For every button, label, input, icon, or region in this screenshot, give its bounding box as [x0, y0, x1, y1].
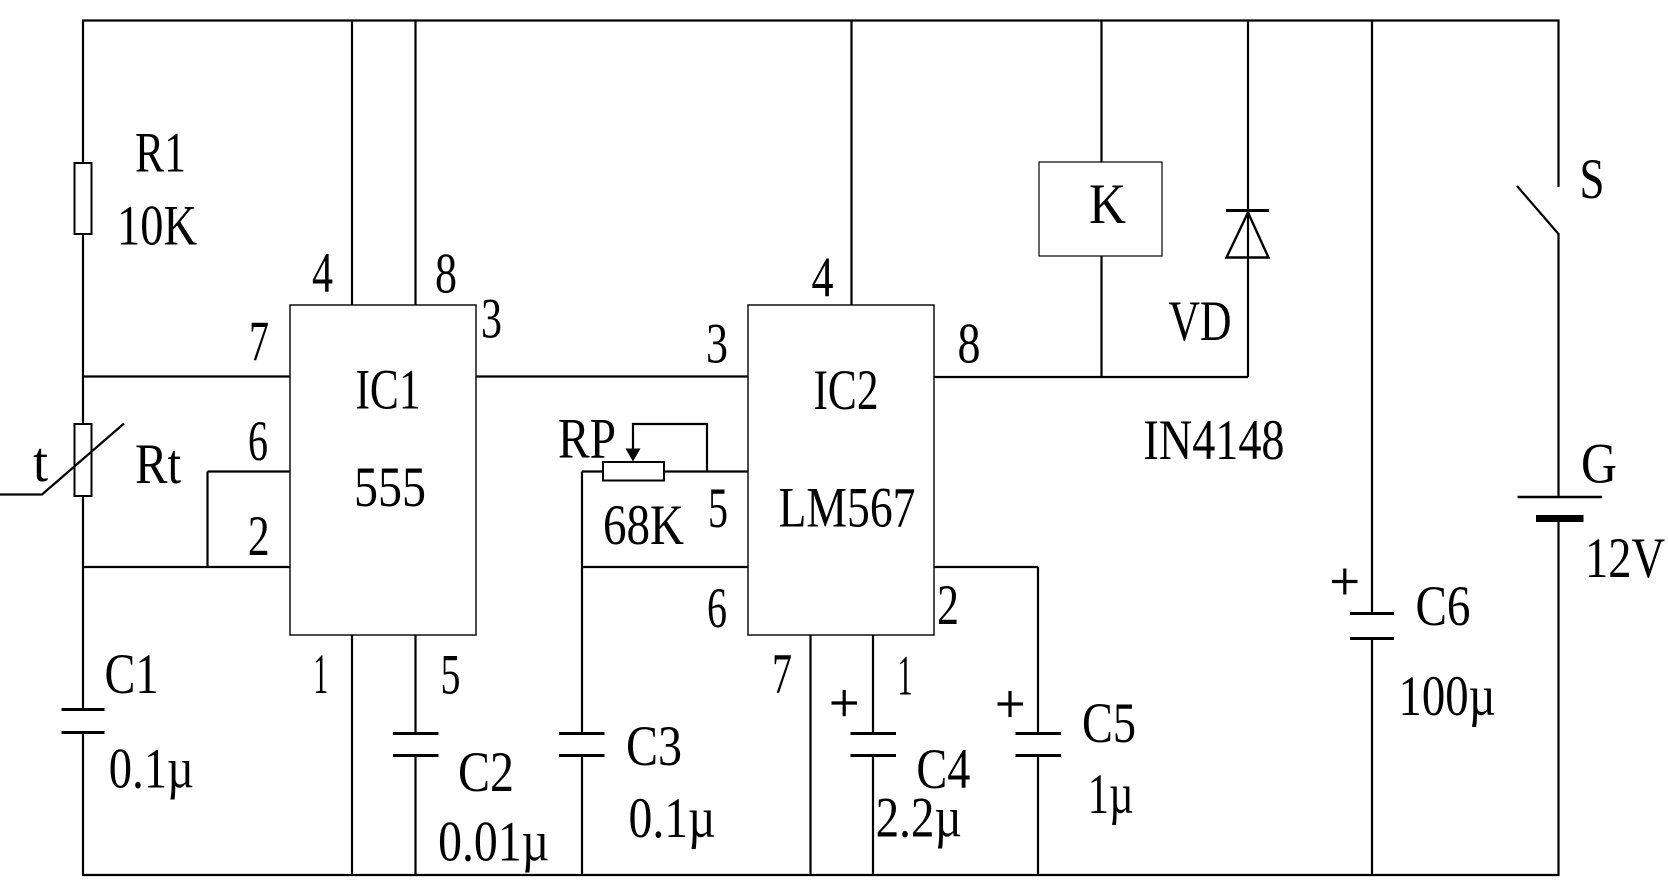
svg-text:555: 555 [354, 456, 426, 519]
relay K box [1039, 162, 1162, 256]
wire left rail above R1 [82, 21, 84, 165]
wire IC1 pin 8 to top bus [414, 21, 416, 306]
svg-text:IC2: IC2 [814, 359, 879, 422]
svg-text:10K: 10K [117, 195, 197, 258]
plus sign of C4 [832, 690, 858, 716]
svg-text:1: 1 [313, 643, 328, 706]
svg-text:1: 1 [898, 645, 913, 708]
svg-text:7: 7 [249, 310, 269, 373]
wire RP right lead to IC2 pin 5 [663, 470, 748, 472]
wire bottom ground bus [82, 874, 1560, 876]
svg-text:0.1µ: 0.1µ [629, 787, 716, 850]
svg-text:VD: VD [1169, 290, 1232, 353]
svg-text:S: S [1580, 148, 1605, 211]
svg-text:t: t [33, 431, 48, 494]
wire left rail C1 to bottom bus [82, 734, 84, 876]
plus sign of C6 [1332, 569, 1358, 595]
svg-text:3: 3 [706, 313, 728, 376]
wire IC2 pin 6 row [582, 566, 748, 568]
svg-text:4: 4 [812, 247, 834, 310]
svg-text:2: 2 [937, 574, 959, 637]
svg-text:K: K [1089, 173, 1126, 236]
IC2 LM567 box [748, 305, 934, 635]
battery G short thick plate [1536, 515, 1584, 522]
wire right rail above switch [1557, 21, 1559, 188]
wire IC2 pin 1 to C4 [872, 635, 874, 732]
battery G long plate [1518, 496, 1603, 499]
svg-text:LM567: LM567 [779, 477, 916, 540]
thermistor Rt diagonal stroke [0, 424, 124, 495]
wire C6 to bottom bus [1371, 640, 1373, 875]
wire IC1 pin 2 row [83, 566, 290, 568]
wire relay K to top bus [1100, 21, 1102, 163]
plus sign of C5 [998, 691, 1024, 717]
capacitor C4 [851, 734, 897, 756]
wire C3 to bottom bus [581, 757, 583, 875]
wire RP left lead [582, 470, 604, 472]
wire diode VD branch, top bus to pin 8 row [1247, 21, 1249, 378]
svg-text:C6: C6 [1416, 575, 1471, 638]
resistor R1 [75, 163, 92, 234]
wire RP wiper jog [633, 424, 707, 472]
svg-text:Rt: Rt [135, 433, 181, 496]
wire IC1 pin 7 row [83, 375, 290, 377]
svg-text:C1: C1 [105, 643, 159, 706]
svg-text:5: 5 [708, 477, 728, 540]
wire IC2 pin 2 row [934, 566, 1038, 568]
wire pin 2 down to C5 [1037, 567, 1039, 732]
diode VD cathode bar [1226, 209, 1269, 212]
svg-text:5: 5 [441, 644, 461, 707]
wire IC1 pin 1 to bottom bus [351, 635, 353, 875]
svg-text:68K: 68K [603, 494, 684, 557]
capacitor C2 [393, 734, 439, 756]
svg-text:0.1µ: 0.1µ [109, 738, 194, 801]
wire IC2 pin 8 to relay and diode [934, 376, 1248, 378]
switch S blade [1517, 186, 1559, 234]
wire IC1 pin 3 to IC2 pin 3 [476, 375, 748, 377]
wire relay K to pin 8 row [1100, 256, 1102, 377]
wire left rail Rt to C1 [82, 495, 84, 709]
svg-text:8: 8 [958, 313, 981, 376]
svg-text:G: G [1581, 433, 1617, 496]
wire jog joining pin 6 to pin 2 [206, 472, 208, 568]
wire C2 to bottom bus [414, 757, 416, 875]
svg-text:R1: R1 [135, 122, 186, 185]
wire C6 to top bus [1371, 21, 1373, 613]
svg-text:C5: C5 [1082, 692, 1136, 755]
svg-text:RP: RP [558, 408, 616, 471]
wire IC2 pin 4 to top bus [850, 21, 852, 306]
potentiometer RP wiper arrow [626, 449, 641, 462]
wire battery to bottom bus [1557, 520, 1559, 876]
IC1 555 box [290, 305, 476, 635]
svg-text:8: 8 [435, 243, 457, 306]
svg-text:C3: C3 [626, 715, 682, 778]
wire IC1 pin 5 to C2 [414, 635, 416, 732]
svg-text:0.01µ: 0.01µ [438, 811, 549, 874]
wire IC1 pin 4 to top bus [351, 21, 353, 306]
wire IC2 pin 7 to bottom bus [809, 635, 811, 875]
svg-text:100µ: 100µ [1399, 665, 1496, 728]
svg-text:12V: 12V [1585, 527, 1665, 590]
wire IC1 pin 6 row [208, 470, 291, 472]
capacitor C5 [1016, 734, 1062, 756]
diode VD triangle [1227, 213, 1269, 258]
capacitor C6 [1350, 614, 1394, 639]
wire RP left end down to C3 [581, 472, 583, 733]
wire switch to battery [1557, 233, 1559, 496]
wire left rail R1 to Rt [82, 233, 84, 425]
svg-text:C2: C2 [458, 741, 514, 804]
svg-text:1µ: 1µ [1088, 763, 1134, 826]
svg-text:6: 6 [707, 577, 727, 640]
capacitor C1 [62, 710, 105, 733]
svg-text:IN4148: IN4148 [1144, 409, 1285, 472]
wire top supply bus [82, 19, 1560, 21]
wire C5 to bottom bus [1037, 757, 1039, 875]
svg-text:3: 3 [481, 288, 502, 351]
svg-text:4: 4 [312, 242, 333, 305]
wire C4 to bottom bus [872, 757, 874, 875]
capacitor C3 [559, 734, 605, 756]
svg-text:6: 6 [248, 410, 268, 473]
potentiometer RP body [603, 462, 664, 481]
svg-text:2: 2 [248, 505, 270, 568]
svg-text:7: 7 [772, 643, 792, 706]
svg-text:2.2µ: 2.2µ [876, 787, 962, 850]
svg-text:IC1: IC1 [356, 359, 421, 422]
thermistor Rt body [75, 424, 92, 496]
